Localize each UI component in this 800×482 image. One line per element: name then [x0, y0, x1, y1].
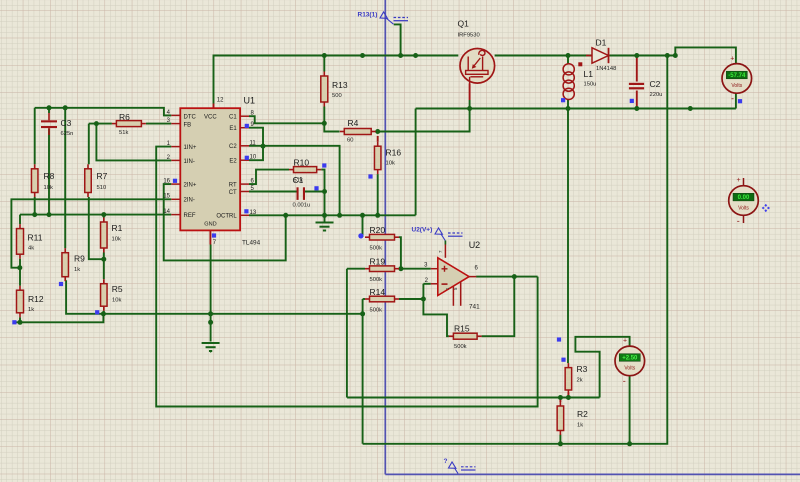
blue marker pin 16 — [173, 179, 177, 183]
voltmeter V1 output — [722, 64, 752, 94]
resistor R4 — [340, 129, 376, 135]
svg-text:VCC: VCC — [204, 114, 217, 120]
blue marker pin 10 — [245, 156, 249, 160]
svg-text:C1: C1 — [229, 115, 237, 121]
node R13 top on VCC rail — [322, 53, 327, 58]
wire jog up to voltmeter V1 plus — [675, 47, 736, 63]
svg-text:R12: R12 — [28, 294, 44, 304]
blue move-cursor marker — [762, 204, 770, 212]
node C3 top — [47, 105, 52, 110]
sheet border (blue) — [385, 0, 800, 474]
node R2 top on divider rail — [558, 395, 563, 400]
wire CT to C1 left — [249, 191, 297, 193]
capacitor C2 — [629, 83, 644, 90]
svg-text:DTC: DTC — [184, 114, 197, 120]
svg-text:500k: 500k — [454, 344, 467, 350]
resistor R16 — [374, 142, 381, 174]
svg-text:E2: E2 — [229, 159, 237, 165]
svg-text:12: 12 — [217, 98, 224, 104]
svg-text:2k: 2k — [577, 378, 583, 384]
node L1 top — [566, 53, 571, 58]
blue marker pin 13 — [244, 209, 248, 213]
wire R16 bottom to OCTRL rail — [377, 174, 379, 215]
svg-text:500: 500 — [332, 93, 342, 99]
resistor R2 — [557, 402, 564, 436]
wire OCTRL rail — [249, 214, 416, 216]
resistor R20 — [365, 234, 399, 240]
wire op-amp pin2 stub link — [423, 283, 430, 285]
svg-text:U2(V+): U2(V+) — [412, 227, 433, 234]
svg-text:500k: 500k — [370, 246, 383, 252]
blue marker V1 bottom — [738, 99, 742, 103]
wire Q1 pin lead (red) — [469, 84, 471, 101]
resistor R13 — [321, 72, 328, 107]
node ground tap on OCTRL rail — [322, 213, 327, 218]
svg-text:741: 741 — [469, 304, 480, 311]
svg-text:?: ? — [444, 458, 448, 465]
svg-text:0.00: 0.00 — [738, 195, 750, 201]
wire REF line — [20, 214, 171, 216]
svg-text:R11: R11 — [28, 233, 43, 243]
resistor R11 — [17, 224, 24, 259]
node R14 right on pin2 column — [421, 297, 426, 302]
node GND column x322 — [208, 320, 213, 325]
wire VCC pin12 to top rail left of Q1 — [214, 56, 459, 104]
svg-text:IRF9530: IRF9530 — [458, 33, 480, 39]
transistor Q1 IRF9530 — [460, 49, 495, 84]
svg-text:4k: 4k — [28, 246, 34, 252]
svg-text:RT: RT — [229, 183, 237, 189]
svg-text:R10: R10 — [294, 158, 310, 168]
svg-text:R2: R2 — [577, 409, 588, 419]
svg-text:1IN+: 1IN+ — [184, 145, 197, 151]
node R1 on REF line — [101, 212, 106, 217]
blue marker line B end — [12, 320, 16, 324]
svg-text:60: 60 — [347, 138, 353, 144]
wire R11 top — [19, 215, 21, 225]
svg-text:+: + — [737, 177, 741, 184]
svg-text:1N4148: 1N4148 — [596, 66, 616, 72]
wire output feedback down to R15 right — [482, 277, 515, 337]
wire top-left horizontal to DTC pin 4 — [35, 108, 172, 116]
node E1-E2 / C2 pin wire — [261, 144, 266, 149]
U2 tiny pin digits — [438, 250, 458, 290]
svg-text:R7: R7 — [97, 171, 108, 181]
wire R4/R16 junction — [377, 136, 379, 142]
svg-text:OCTRL: OCTRL — [216, 214, 237, 220]
resistor R6 — [112, 121, 146, 127]
blue marker L1 bottom — [561, 98, 565, 102]
svg-text:C1: C1 — [293, 175, 304, 185]
node C2-pin column on OCTRL rail — [337, 213, 342, 218]
node R13 bottom / C1 wire — [322, 121, 327, 126]
ground symbol wire stub — [210, 351, 212, 354]
svg-text:R13(1): R13(1) — [358, 12, 378, 19]
svg-text:14: 14 — [163, 209, 170, 215]
blue marker C2 bottom — [630, 99, 634, 103]
wire R14 left column down to bottom rail — [362, 299, 364, 444]
svg-text:2IN-: 2IN- — [184, 198, 195, 204]
node jog corner to V1 — [673, 53, 678, 58]
node C2 top — [634, 53, 639, 58]
wire R14 right to pin2 column — [399, 298, 423, 300]
svg-text:220u: 220u — [650, 92, 663, 98]
wire C1 right — [305, 191, 325, 193]
svg-text:U1: U1 — [244, 96, 256, 106]
wire R6 right to FB pin 3 — [146, 123, 171, 125]
node 2IN+ loop on OCTRL rail — [283, 213, 288, 218]
V2 top stub — [743, 178, 745, 186]
svg-text:Volts: Volts — [624, 366, 635, 372]
node R20 branch on OCTRL rail — [360, 213, 365, 218]
wire R5 bottom — [103, 311, 105, 314]
resistor R12 — [17, 286, 24, 318]
svg-text:500k: 500k — [370, 277, 383, 283]
node R8 on REF line — [32, 212, 37, 217]
svg-text:R6: R6 — [119, 112, 130, 122]
node R7 join on R1-R5 column — [101, 257, 106, 262]
wire R2 top — [559, 398, 561, 403]
wire R11 bottom to R12 top — [19, 259, 21, 286]
wire R1 bottom to R5 top — [103, 253, 105, 280]
node R4 right / R16 top — [375, 129, 380, 134]
wire C3 top — [48, 108, 50, 113]
svg-text:Volts: Volts — [738, 205, 749, 211]
node R5 bottom / line B — [101, 311, 106, 316]
blue marker C1 right — [314, 186, 318, 190]
wire L1 top lead — [567, 56, 569, 65]
wire U1 C1 pin to R13 bottom — [249, 116, 324, 123]
svg-text:E1: E1 — [229, 126, 237, 132]
wire R13 top — [323, 56, 325, 72]
svg-text:R8: R8 — [44, 171, 55, 181]
svg-text:51k: 51k — [119, 130, 128, 136]
wire R12 bottom — [19, 317, 21, 322]
resistor R1 — [101, 218, 108, 253]
svg-text:150u: 150u — [584, 82, 597, 88]
wire R6 node to 1IN- pin 2 — [96, 124, 171, 161]
capacitor C3 — [41, 113, 57, 135]
svg-text:1k: 1k — [74, 267, 80, 273]
wire RT to R10 left — [249, 170, 289, 185]
wire switch node down to R3 top — [567, 109, 569, 364]
wire node A column down to R9 top — [64, 108, 66, 248]
wire C2 top lead — [636, 56, 638, 82]
wire pin2 to R15 left — [423, 284, 449, 336]
wire voltmeter V1 minus drop — [735, 93, 737, 108]
node R20 drop on pin3 line — [398, 266, 403, 271]
wire R20 right down to pin3 line — [399, 237, 401, 269]
resistor R14 — [365, 296, 399, 302]
wire 2IN+ loop to OCTRL rail — [164, 184, 286, 260]
wire R10 right down to ground node — [321, 170, 324, 216]
node L1 bottom on lower rail — [566, 106, 571, 111]
svg-text:Q1: Q1 — [458, 19, 470, 29]
svg-text:Volts: Volts — [731, 83, 742, 89]
svg-text:C3: C3 — [61, 118, 72, 128]
wire op-amp output — [476, 276, 537, 278]
svg-text:+: + — [730, 56, 734, 63]
wire lower output rail — [416, 108, 736, 110]
wire R19 right to op-amp pin 3 — [399, 268, 431, 270]
node on top rail x415 — [413, 53, 418, 58]
node C2 bottom on lower rail — [634, 106, 639, 111]
voltmeter V2 floating — [729, 186, 759, 216]
wire R4 right to Q1 gate node — [376, 109, 470, 132]
node on lower rail x690 — [688, 106, 693, 111]
svg-text:625n: 625n — [61, 131, 74, 137]
svg-text:R20: R20 — [370, 225, 386, 235]
node R11 bottom / 2IN- link — [17, 265, 22, 270]
svg-text:10k: 10k — [112, 237, 121, 243]
svg-text:16: 16 — [163, 179, 170, 185]
blue marker pin 7 — [212, 233, 216, 237]
svg-text:R19: R19 — [370, 257, 386, 267]
resistor R3 — [565, 363, 572, 394]
blue marker R5 bottom — [95, 310, 99, 314]
node R6 left / R7 / 1IN- branch — [94, 121, 99, 126]
wire probe R13(1) to top rail — [394, 24, 401, 55]
svg-text:R13: R13 — [332, 80, 348, 90]
svg-text:-: - — [737, 216, 740, 226]
blue marker R9 bottom — [59, 282, 63, 286]
svg-text:R14: R14 — [370, 287, 386, 297]
blue marker R20 left corner — [358, 233, 363, 238]
svg-text:GND: GND — [204, 222, 216, 228]
svg-text:10: 10 — [250, 155, 257, 161]
wire R7 bottom down to R1-R5 column — [89, 197, 104, 259]
wire U1 GND pin stub — [209, 230, 211, 244]
wire R14 left stub — [363, 298, 365, 300]
wire L1 bottom lead — [567, 99, 569, 109]
wire C3 bottom to REF line — [48, 129, 50, 215]
node R3 bottom on divider rail — [566, 395, 571, 400]
svg-text:10k: 10k — [386, 161, 395, 167]
svg-text:REF: REF — [184, 213, 196, 219]
svg-text:R3: R3 — [577, 364, 588, 374]
svg-text:TL494: TL494 — [242, 239, 261, 246]
blue marker near V3 plus wire — [557, 337, 561, 341]
wire OCTRL node to ground symbol — [324, 215, 326, 222]
wire R3 bottom — [567, 393, 569, 398]
svg-text:+: + — [623, 337, 627, 344]
blue marker R3 top — [561, 358, 565, 362]
node column A top — [63, 105, 68, 110]
svg-text:U2: U2 — [469, 240, 481, 250]
wire R13 bottom to R4 left — [324, 107, 339, 132]
wire OCTRL rail down to R20 left — [362, 215, 364, 237]
wire R8 bottom to REF line — [34, 197, 36, 215]
wire output down right side to bottom rail — [363, 56, 668, 444]
svg-text:15: 15 — [163, 194, 170, 200]
wire R12 bottom line B to R5 bottom node — [14, 314, 103, 323]
svg-text:R16: R16 — [386, 148, 402, 158]
svg-text:R4: R4 — [348, 118, 359, 128]
svg-text:-57.74: -57.74 — [728, 73, 746, 79]
probe ? near sheet corner — [444, 458, 476, 474]
svg-text:D1: D1 — [596, 38, 607, 48]
resistor R9 — [62, 248, 68, 281]
node probe tap on top rail — [398, 53, 403, 58]
svg-text:R5: R5 — [112, 284, 123, 294]
node rail A end on R14 column — [360, 311, 365, 316]
node V3 minus on bottom rail — [627, 441, 632, 446]
svg-text:2IN+: 2IN+ — [184, 183, 197, 189]
capacitor C1 — [297, 187, 306, 200]
resistor R5 — [101, 279, 108, 311]
V2 bottom stub — [743, 215, 745, 223]
power probe U2(V+) — [412, 227, 463, 241]
svg-text:CT: CT — [229, 190, 237, 196]
svg-text:10k: 10k — [44, 185, 53, 191]
svg-text:500k: 500k — [370, 307, 383, 313]
resistor R10 — [289, 167, 321, 173]
ground symbol below U1 — [202, 343, 220, 351]
svg-text:R1: R1 — [112, 223, 123, 233]
node output column top — [665, 53, 670, 58]
wire R2 bottom to bottom rail — [559, 435, 561, 444]
node R2 bottom on bottom rail — [558, 441, 563, 446]
U2 input pin stubs and output stub — [431, 269, 477, 284]
svg-text:C2: C2 — [229, 144, 237, 150]
op-amp-chip U1 TL494 body — [180, 108, 240, 230]
node C3 on REF line — [47, 212, 52, 217]
node C1 right / R10 column — [322, 189, 327, 194]
U1 right pin stubs — [240, 116, 249, 215]
svg-text:R9: R9 — [74, 254, 85, 264]
wire Q1 bottom lead lower part — [469, 100, 471, 109]
wire C2 bottom lead — [636, 91, 638, 109]
wire OCTRL riser at x=415.6 — [415, 109, 417, 216]
wire E1-E2 link — [249, 128, 263, 161]
wire VCC pin stub — [213, 104, 215, 109]
wire D1 cathode to output corner — [610, 55, 676, 57]
svg-text:FB: FB — [184, 123, 192, 129]
voltmeter V3 divider — [615, 346, 645, 376]
wire divider rail R3/R2 — [347, 397, 599, 399]
blue marker R16 left — [368, 174, 372, 178]
svg-text:11: 11 — [250, 140, 257, 146]
diode D1 — [586, 48, 609, 63]
node R12 bottom on line B — [18, 320, 23, 325]
svg-text:1k: 1k — [577, 423, 583, 429]
svg-text:+2.50: +2.50 — [622, 356, 638, 362]
resistor R15 — [449, 333, 482, 339]
voltage probe R13(1) — [358, 12, 409, 25]
node on top rail x362 — [360, 53, 365, 58]
wire R9 bottom rail A — [65, 281, 362, 314]
svg-text:-: - — [623, 376, 626, 386]
wire divider to voltmeter V3 plus — [575, 337, 629, 398]
wire R8 top — [34, 108, 36, 165]
svg-text:-: - — [731, 94, 734, 104]
resistor R8 — [31, 164, 38, 197]
resistor R7 — [85, 164, 92, 197]
wire R19 left column down to divider node — [346, 269, 348, 398]
ground symbol near C1 — [316, 223, 334, 231]
wire R19 left segment — [347, 268, 365, 270]
wire voltmeter V3 minus to bottom rail — [629, 376, 631, 444]
svg-text:1IN-: 1IN- — [184, 159, 195, 165]
svg-text:C2: C2 — [650, 79, 661, 89]
wire U1 GND pin 7 down to ground — [210, 245, 212, 342]
svg-text:1k: 1k — [28, 307, 34, 313]
svg-text:0.001u: 0.001u — [293, 202, 311, 208]
svg-text:510: 510 — [97, 185, 107, 191]
blue marker pin 9 — [245, 124, 249, 128]
resistor R19 — [365, 266, 399, 272]
U2 power pin stub top (pin 7) — [444, 241, 446, 245]
svg-text:10k: 10k — [112, 298, 121, 304]
svg-text:R15: R15 — [454, 324, 470, 334]
svg-text:13: 13 — [250, 210, 257, 216]
wire top rail Q1 to D1 anode — [495, 55, 592, 57]
U1 left pin stubs — [171, 115, 180, 214]
node R16 bottom on OCTRL rail — [375, 213, 380, 218]
U2 plus sign — [442, 266, 448, 272]
wire 1IN+ feedback loop from op-amp output — [156, 147, 537, 407]
U2 minus sign — [442, 283, 448, 285]
wire R6 left segment — [89, 123, 112, 125]
wire R1 top — [103, 215, 105, 218]
blue marker R10 right — [322, 163, 326, 167]
op-amp U2 741 triangle — [438, 258, 469, 296]
inductor L1 — [563, 62, 582, 99]
U2 bottom pin stubs (1,4,5) — [453, 282, 460, 306]
wire U1 C2 pin down to OCTRL rail — [249, 146, 340, 216]
wire R7 top — [88, 124, 90, 165]
node GND column on rail A — [208, 311, 213, 316]
svg-text:L1: L1 — [584, 69, 594, 79]
wire 2IN- to R11 bottom node — [11, 199, 171, 267]
node feedback tap on output wire — [512, 274, 517, 279]
node Q1 lead on lower rail — [467, 106, 472, 111]
